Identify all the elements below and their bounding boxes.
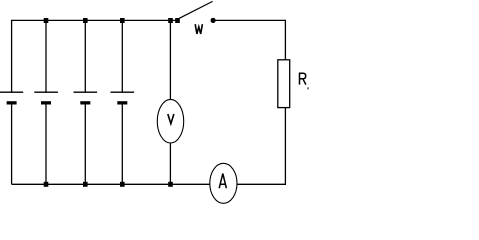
resistor R (278, 60, 290, 108)
battery cell B3 (74, 92, 98, 104)
battery cell B2 (34, 92, 58, 104)
node junction top B3 (83, 18, 88, 23)
wire right branch upper (284, 20, 286, 60)
wire battery B2 top stub (45, 20, 47, 92)
wire left rail lower (11, 104, 13, 185)
label W (195, 24, 202, 34)
node junction bottom voltmeter branch (168, 182, 173, 187)
switch W blade (178, 1, 212, 18)
battery cell B4 (111, 92, 135, 104)
wire bottom rail left (12, 183, 210, 185)
wire voltmeter top lead (169, 20, 171, 99)
node junction bottom B3 (83, 182, 88, 187)
label V (168, 114, 174, 124)
node junction top voltmeter branch (168, 18, 173, 23)
wire voltmeter bottom lead (169, 143, 171, 184)
voltmeter V (157, 99, 183, 143)
label R (300, 73, 306, 84)
wire bottom rail right (237, 183, 286, 185)
node junction bottom B4 (120, 182, 125, 187)
switch W throw dot (211, 18, 216, 23)
wire battery B2 bottom stub (45, 104, 47, 185)
ammeter A (210, 163, 237, 203)
wire battery B4 top stub (121, 20, 123, 92)
wire right branch lower (284, 108, 286, 185)
wire switch to top-right corner (213, 19, 285, 21)
wire battery B3 top stub (84, 20, 86, 92)
wire battery B4 bottom stub (121, 104, 123, 185)
node junction top B4 (120, 18, 125, 23)
node junction bottom B2 (44, 182, 49, 187)
node junction top B2 (44, 18, 49, 23)
wire battery B3 bottom stub (84, 104, 86, 185)
switch W pole dot (175, 18, 180, 23)
wire left rail upper (11, 20, 13, 92)
wire top rail (12, 19, 179, 21)
battery cell B1 (0, 92, 23, 104)
label R subscript speck (307, 87, 309, 89)
label A (219, 174, 226, 189)
